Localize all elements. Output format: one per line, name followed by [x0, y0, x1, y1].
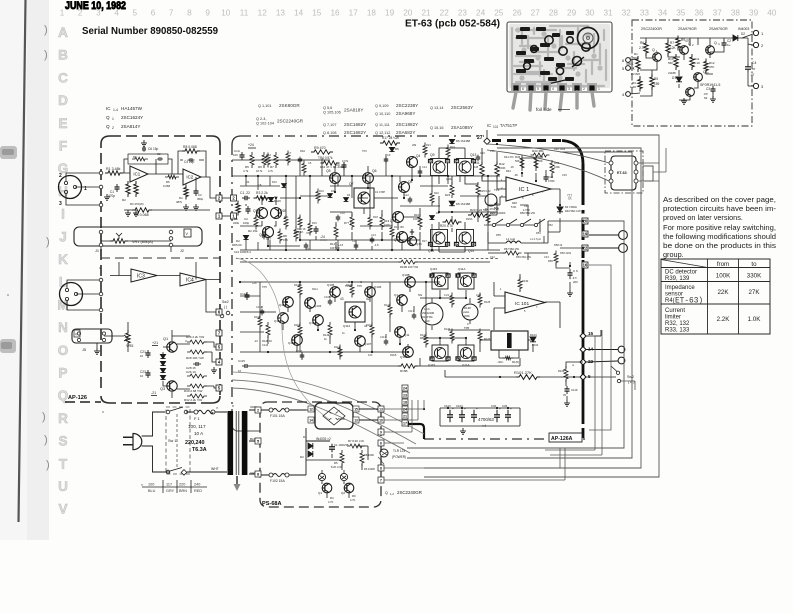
- svg-text:R10B: R10B: [254, 315, 261, 319]
- svg-text:E: E: [58, 116, 67, 131]
- svg-text:Q10B: Q10B: [400, 355, 408, 359]
- svg-text:): ): [44, 434, 48, 446]
- svg-text:100, 117: 100, 117: [188, 424, 206, 429]
- rail to output transistors: [439, 148, 465, 252]
- svg-text:protection circuits have been: protection circuits have been im-: [663, 204, 777, 213]
- wires inside protection circuit: [645, 38, 647, 43]
- extra diodes upper channel: [328, 194, 333, 198]
- tab column mid-bottom: [402, 385, 408, 391]
- svg-text:R14: R14: [330, 242, 336, 246]
- svg-text:R4: R4: [330, 496, 334, 500]
- svg-text:1,2: 1,2: [390, 492, 394, 496]
- svg-text:Q 9,109: Q 9,109: [375, 104, 389, 108]
- tab 1 AP-126 out: [216, 213, 222, 219]
- svg-text:5.1K: 5.1K: [694, 61, 700, 65]
- resistor R1 220k: [236, 201, 240, 216]
- PCB transistor with lead: [573, 57, 582, 66]
- svg-text:N: N: [58, 320, 68, 335]
- svg-text:13: 13: [354, 419, 358, 423]
- svg-text:D4: D4: [347, 193, 351, 197]
- svg-text:18.7k: 18.7k: [256, 169, 263, 173]
- transistor Q1: [653, 53, 662, 62]
- transistor Q106: [365, 287, 376, 298]
- svg-text:487k: 487k: [176, 200, 183, 204]
- svg-text:R12 1K: R12 1K: [297, 227, 306, 231]
- svg-text:330K: 330K: [747, 273, 762, 280]
- svg-text:TP4 0.97k: TP4 0.97k: [318, 156, 333, 160]
- transistor Q101: [283, 297, 294, 308]
- svg-text:42: 42: [366, 297, 370, 301]
- capacitor C101 1000/35: [331, 444, 333, 447]
- loop wire 4: [407, 221, 624, 448]
- extra wires upper channel: [245, 176, 247, 186]
- bias diodes D1-D4: [160, 354, 165, 358]
- transistor Q104b: [313, 315, 324, 326]
- svg-text:56K: 56K: [538, 159, 543, 163]
- relay wires: [480, 340, 533, 358]
- svg-text:F 1: F 1: [194, 416, 201, 421]
- svg-text:2: 2: [112, 126, 114, 130]
- modification table outline: [661, 259, 770, 334]
- svg-text:(POWER): (POWER): [392, 455, 406, 459]
- svg-text:17: 17: [349, 9, 359, 18]
- svg-text:4.7K: 4.7K: [328, 500, 334, 504]
- resistor R13 1K: [298, 215, 302, 230]
- svg-text:C5: C5: [308, 161, 312, 165]
- resistors above IC1: [520, 155, 524, 171]
- svg-text:R111: R111: [312, 287, 318, 291]
- PS-68A block border: [260, 402, 381, 507]
- wire IC1 top loop: [123, 159, 183, 174]
- svg-text:J5: J5: [82, 348, 86, 352]
- wire cap bank rail: [440, 408, 520, 426]
- svg-text:R10: R10: [414, 213, 420, 217]
- transistor Q10B2: [403, 347, 414, 358]
- lower channel wires: [268, 287, 470, 352]
- cap C112 near bus: [566, 386, 568, 389]
- resistor R11 47 + R1 200ohm: [321, 161, 340, 165]
- svg-text:C113: C113: [380, 335, 387, 339]
- resistor cluster labels Q1 stage: [187, 340, 207, 344]
- wire stubs to tabs: [206, 280, 216, 389]
- extra resistors upper channel: [284, 215, 288, 230]
- svg-text:BLU: BLU: [148, 489, 156, 493]
- loop wire 5 inner: [589, 265, 611, 430]
- transistor Q1 PS: [322, 483, 332, 493]
- wires to ET-63: [487, 144, 609, 181]
- svg-text:R6: R6: [640, 41, 644, 45]
- extra wires protection area: [559, 205, 561, 214]
- resistor R9 470: [676, 36, 680, 51]
- svg-text:T: T: [59, 456, 68, 471]
- svg-text:R7 8.2K ¼W: R7 8.2K ¼W: [348, 439, 364, 443]
- PCB large capacitor ring: [578, 28, 599, 49]
- svg-text:2SC1624Y: 2SC1624Y: [121, 115, 143, 120]
- svg-text:IC1: IC1: [133, 172, 140, 177]
- svg-text:R59 56Ω 2W: R59 56Ω 2W: [516, 255, 531, 259]
- svg-text:×: ×: [141, 483, 143, 487]
- driver transistor Q7 boxed: [354, 188, 374, 208]
- label D2 zener: [243, 235, 248, 239]
- fuse F1: [194, 410, 198, 414]
- svg-text:3: 3: [96, 9, 101, 18]
- svg-text:15: 15: [354, 408, 358, 412]
- fuse F101: [269, 408, 273, 412]
- long rails center: [240, 198, 500, 250]
- table row lines: [661, 267, 770, 269]
- op-amp IC2: [183, 169, 201, 185]
- svg-text:C3: C3: [706, 87, 710, 91]
- svg-text:D6 1S1388: D6 1S1388: [456, 139, 470, 143]
- capacitor C1 .22: [242, 197, 245, 199]
- resistor R42 100K: [495, 162, 499, 179]
- svg-text:R101 27K: R101 27K: [514, 370, 532, 375]
- capacitor C21: [147, 350, 149, 353]
- transistor Q11: [395, 327, 406, 338]
- svg-text:K: K: [58, 252, 68, 267]
- V box J3: [74, 330, 80, 337]
- svg-text:Q1: Q1: [394, 293, 398, 297]
- svg-text:0.068: 0.068: [163, 184, 170, 188]
- svg-text:-36: -36: [510, 165, 514, 169]
- svg-text:Q2: Q2: [341, 491, 345, 495]
- svg-text:J1: J1: [95, 249, 99, 253]
- thick bus curve and vertical: [562, 141, 583, 165]
- PS right tabs: [378, 406, 384, 412]
- wires bridge to right tabs: [306, 409, 378, 420]
- transistor Q103: [305, 298, 316, 309]
- svg-text:6: 6: [380, 442, 382, 446]
- svg-text:R18: R18: [373, 215, 378, 219]
- svg-text:10: 10: [140, 354, 144, 358]
- svg-text:R17 28 ¼W: R17 28 ¼W: [382, 136, 399, 140]
- svg-text:Q115: Q115: [430, 267, 437, 271]
- svg-text:15: 15: [446, 274, 450, 278]
- svg-text:2SC1882Y: 2SC1882Y: [396, 122, 418, 127]
- svg-text:R53: R53: [536, 231, 541, 235]
- tab 5 PS input: [255, 438, 261, 444]
- V box right: [184, 229, 191, 237]
- svg-text:Q: Q: [652, 48, 655, 52]
- svg-text:R15B: R15B: [400, 369, 408, 373]
- svg-text:Q: Q: [714, 41, 717, 45]
- svg-text:R2 820: R2 820: [631, 72, 640, 76]
- svg-text:R105A: R105A: [294, 283, 302, 287]
- svg-text:10 A: 10 A: [194, 431, 204, 436]
- svg-text:17: 17: [456, 357, 460, 361]
- svg-text:Q103: Q103: [314, 304, 322, 308]
- svg-text:IN4003: IN4003: [738, 27, 749, 31]
- svg-text:Q 12,112: Q 12,112: [375, 131, 390, 135]
- svg-text:1-4: 1-4: [113, 108, 118, 112]
- svg-text:14: 14: [588, 347, 594, 352]
- svg-text:240: 240: [194, 483, 200, 487]
- AP-126 block border: [101, 136, 220, 403]
- svg-text:DC detector: DC detector: [665, 270, 697, 276]
- scan artifact: gray smudge 2: [0, 339, 16, 353]
- svg-text:L1 (μH: L1 (μH: [506, 237, 515, 241]
- AC plug: [133, 434, 142, 450]
- svg-text:24: 24: [403, 408, 407, 412]
- fuse F102: [269, 473, 273, 477]
- row letters A-V: [57, 25, 68, 517]
- svg-text:D8 1S1388: D8 1S1388: [456, 202, 470, 206]
- svg-text:): ): [46, 236, 50, 248]
- scan artifact: left margin gray band: [27, 0, 49, 540]
- svg-text:9: 9: [380, 431, 382, 435]
- svg-text:R5 0.068: R5 0.068: [134, 213, 149, 217]
- resistor R4 496K: [636, 56, 640, 72]
- feedback resistor R20 4.7k: [443, 220, 462, 224]
- svg-text:VR5: VR5: [126, 344, 133, 348]
- svg-text:23: 23: [458, 9, 468, 18]
- svg-text:R28 10K ½W: R28 10K ½W: [186, 356, 204, 360]
- svg-text:C11: C11: [352, 239, 357, 243]
- svg-text:Serial Number 890850-082559: Serial Number 890850-082559: [82, 25, 218, 37]
- capacitor C4 0.47: [747, 64, 749, 67]
- svg-text:16: 16: [583, 263, 588, 268]
- FET pair Q1B: [271, 208, 282, 219]
- resistor R5 8.2k: [340, 450, 344, 466]
- svg-text:0.97k: 0.97k: [342, 159, 349, 163]
- svg-text:22K: 22K: [717, 289, 729, 296]
- svg-text:350p: 350p: [197, 197, 204, 201]
- table header diagonal: [661, 260, 708, 268]
- svg-text:R39, 139: R39, 139: [665, 276, 690, 282]
- svg-text:2SA968Y: 2SA968Y: [396, 111, 415, 116]
- svg-text:3: 3: [59, 201, 62, 207]
- svg-text:43: 43: [340, 297, 344, 301]
- relay coil L1: [506, 241, 521, 243]
- loop wire outermost: [424, 135, 659, 477]
- svg-text:15: 15: [588, 331, 594, 336]
- svg-text:IC 1: IC 1: [519, 187, 529, 193]
- resistor R11 5.1K: [690, 54, 694, 70]
- svg-text:Sw2: Sw2: [627, 375, 634, 379]
- svg-text:proved on later versions.: proved on later versions.: [663, 213, 743, 222]
- transistor Q9 bias: [361, 196, 363, 198]
- svg-text:D4 7400Ω: D4 7400Ω: [565, 205, 577, 209]
- svg-text:R1 3.48k: R1 3.48k: [106, 167, 121, 171]
- svg-text:R2: R2: [122, 198, 126, 202]
- AP-126 inner divider: [101, 257, 220, 259]
- svg-text:6: 6: [151, 9, 156, 18]
- svg-text:C43: C43: [544, 255, 549, 259]
- svg-text:IC: IC: [106, 106, 111, 111]
- svg-text:R31: R31: [306, 247, 311, 251]
- svg-text:C1 1000/35: C1 1000/35: [334, 443, 349, 447]
- svg-text:MA26: MA26: [274, 199, 281, 203]
- svg-text:R7: R7: [133, 155, 137, 159]
- Sw1 dashed link: [176, 414, 178, 468]
- upper rail wires left part: [232, 160, 500, 246]
- resistor R14 100 half W: [334, 224, 338, 240]
- svg-text:be done on the products in thi: be done on the products in this: [663, 241, 776, 250]
- svg-text:R10: R10: [272, 180, 277, 184]
- transistor Q105: [330, 287, 341, 298]
- svg-text:C7: C7: [288, 151, 292, 155]
- wires transformer to PS: [249, 410, 255, 474]
- resistor R2: [126, 181, 130, 197]
- svg-text:IN4003 ×2: IN4003 ×2: [316, 437, 331, 441]
- svg-text:R6 10WK: R6 10WK: [364, 467, 375, 471]
- svg-text:8: 8: [257, 473, 259, 477]
- svg-text:R7: R7: [270, 165, 274, 169]
- transistor Q4: [706, 46, 715, 55]
- AP-126A bottom border: [424, 438, 585, 440]
- svg-text:14: 14: [309, 419, 313, 423]
- svg-text:Q101: Q101: [279, 303, 287, 307]
- transistor Q4 vas: [407, 157, 418, 168]
- svg-text:BRN: BRN: [179, 489, 187, 493]
- svg-text:C114: C114: [240, 292, 247, 296]
- svg-text:200: 200: [573, 280, 578, 284]
- svg-text:101: 101: [493, 125, 499, 129]
- IC101 comparator triangle: [505, 292, 545, 313]
- svg-text:0.22: 0.22: [476, 293, 482, 297]
- svg-text:2SA814Y: 2SA814Y: [121, 124, 140, 129]
- svg-text:( ): ( ): [224, 305, 227, 309]
- svg-text:23: 23: [403, 394, 407, 398]
- svg-text:Q 1,101: Q 1,101: [258, 104, 272, 108]
- svg-text:): ): [42, 411, 46, 423]
- svg-text:63: 63: [704, 96, 708, 100]
- svg-text:R7: R7: [670, 41, 674, 45]
- svg-text:R117: R117: [334, 345, 341, 349]
- svg-text:ET-63 (pcb 052-584): ET-63 (pcb 052-584): [405, 18, 500, 30]
- resistor R5 159: [650, 74, 654, 90]
- svg-text:J: J: [59, 229, 67, 244]
- svg-text:R24: R24: [450, 145, 455, 149]
- svg-text:200k: 200k: [464, 314, 470, 318]
- svg-text:Q 15,16: Q 15,16: [430, 126, 444, 130]
- svg-text:C: C: [467, 322, 469, 326]
- varistor R128 circle: [462, 304, 478, 320]
- svg-text:R106: R106: [558, 369, 565, 373]
- svg-text:R4(: R4(: [665, 298, 675, 304]
- bias network center: [350, 214, 354, 230]
- svg-text:R32 2.2k ½W: R32 2.2k ½W: [184, 398, 202, 402]
- LED LD1: [318, 473, 325, 480]
- svg-text:4700/63: 4700/63: [478, 417, 494, 422]
- svg-text:R52: R52: [548, 223, 553, 227]
- output terminal circles upper pair: [619, 231, 628, 240]
- wire IC2 output to terminals: [186, 177, 217, 198]
- capacitor C6 .47/200: [569, 269, 571, 273]
- diode D1 MA26: [268, 197, 273, 201]
- svg-text:2: 2: [59, 173, 62, 179]
- op-amp IC1: [130, 166, 148, 182]
- svg-text:WHT: WHT: [211, 467, 219, 471]
- svg-text:19: 19: [385, 9, 395, 18]
- capacitor C6 15p: [143, 146, 145, 148]
- svg-text:100p: 100p: [243, 221, 250, 225]
- svg-text:15: 15: [312, 9, 322, 18]
- svg-text:29: 29: [567, 9, 577, 18]
- svg-text:D5: D5: [395, 147, 399, 151]
- op-amp IC4: [180, 273, 206, 286]
- capacitor C114: [246, 292, 248, 295]
- svg-text:31: 31: [603, 9, 613, 18]
- svg-text:4.7K: 4.7K: [350, 498, 356, 502]
- svg-text:2: 2: [583, 87, 585, 91]
- svg-text:HA1457W: HA1457W: [121, 106, 143, 111]
- svg-text:20: 20: [403, 9, 413, 18]
- svg-text:For more positive relay switch: For more positive relay switching,: [663, 223, 776, 232]
- svg-text:R43 38K: R43 38K: [532, 149, 544, 153]
- resistor R17 28k: [380, 141, 400, 145]
- svg-text:Q14: Q14: [468, 249, 474, 253]
- loop wire 2: [424, 148, 641, 468]
- PCB jumper wire: [548, 78, 574, 84]
- svg-text:R25 0.22: R25 0.22: [480, 189, 491, 193]
- svg-text:18: 18: [367, 9, 377, 18]
- svg-text:28: 28: [549, 9, 559, 18]
- svg-text:R143 56k: R143 56k: [422, 316, 433, 319]
- transistor Q107: [355, 336, 366, 347]
- svg-text:9: 9: [205, 9, 210, 18]
- svg-text:D1: D1: [672, 76, 676, 80]
- svg-text:56k: 56k: [418, 293, 423, 297]
- transistor Q9 lower: [397, 232, 408, 243]
- svg-text:R48: R48: [512, 201, 517, 205]
- LED LD2: [340, 473, 347, 480]
- transistor Q2: [680, 46, 689, 55]
- resistor R1 3.48k: [105, 171, 123, 175]
- svg-text:47K: 47K: [709, 65, 714, 69]
- svg-text:Q1: Q1: [163, 337, 168, 341]
- diode D5: [389, 147, 394, 151]
- svg-text:AP-126: AP-126: [68, 395, 87, 401]
- svg-text:15: 15: [472, 274, 476, 278]
- svg-text:+36: +36: [490, 149, 495, 153]
- thick bus top dash: [492, 139, 562, 142]
- wire F1 to transformer: [165, 412, 227, 472]
- terminal 6 left: [626, 58, 631, 63]
- svg-text:C13: C13: [371, 233, 376, 237]
- transistor Q3 output AP-126: [167, 381, 177, 391]
- svg-text:777: 777: [567, 193, 572, 197]
- svg-text:B: B: [58, 48, 68, 63]
- svg-text:F102 15A: F102 15A: [270, 479, 285, 483]
- svg-text:C114: C114: [256, 305, 263, 309]
- svg-text:Q13: Q13: [470, 153, 477, 157]
- transistor Q7b lower driver: [393, 212, 404, 223]
- svg-text:varist: varist: [463, 310, 469, 314]
- svg-text:30: 30: [429, 159, 433, 163]
- svg-text:24: 24: [403, 387, 407, 391]
- jack bar J1-J2: [74, 227, 202, 246]
- svg-text:C17: C17: [266, 237, 271, 241]
- AP-126 bottom border extension: [65, 401, 101, 403]
- svg-text:T6.3A: T6.3A: [192, 447, 207, 453]
- svg-text:C9: C9: [387, 153, 391, 157]
- TP1 test point circle: [485, 194, 497, 206]
- resistor R8 15k: [278, 229, 282, 244]
- svg-text:R58 2k: R58 2k: [554, 243, 563, 247]
- svg-text:R148 1K: R148 1K: [262, 339, 272, 343]
- wires XLR1 to block: [66, 173, 101, 205]
- svg-text:Q11A: Q11A: [458, 267, 465, 271]
- svg-text:2SC1682Y: 2SC1682Y: [344, 130, 366, 135]
- svg-text:Q 13,14: Q 13,14: [430, 106, 444, 110]
- svg-text:A: A: [58, 25, 68, 40]
- svg-text:Q11: Q11: [404, 333, 410, 337]
- zener D103 label: [557, 207, 563, 212]
- svg-text:Q: Q: [106, 124, 110, 129]
- diode D8 1S1388: [449, 201, 455, 205]
- wire left edge of loops down: [232, 425, 260, 431]
